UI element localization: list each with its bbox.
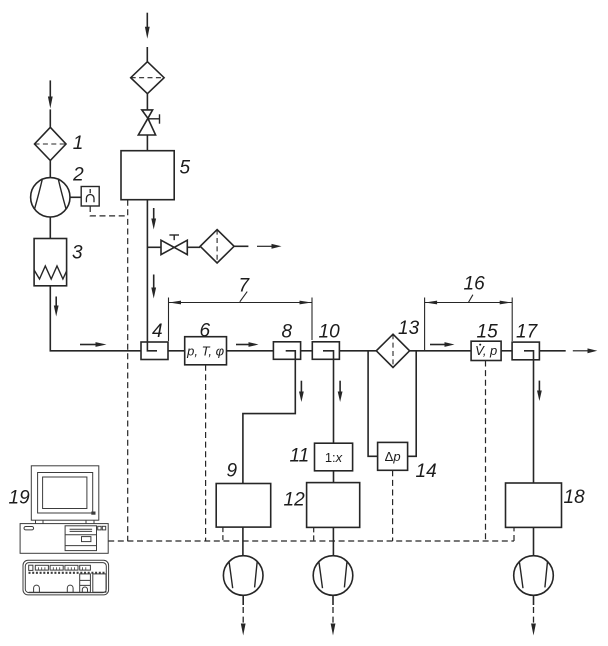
svg-text:16: 16 (464, 273, 486, 294)
arrow head below box5 (151, 219, 156, 230)
blower B2 (31, 178, 70, 217)
svg-text:8: 8 (282, 322, 293, 343)
fan P1 (223, 556, 263, 596)
filter F13 (376, 334, 409, 367)
svg-text:1: 1 (73, 133, 84, 154)
svg-text:11: 11 (290, 446, 310, 467)
exhaust arrow head (272, 244, 282, 249)
filter F5a (131, 62, 164, 94)
key row groups (35, 565, 48, 570)
outlet fan1 (242, 595, 244, 605)
dashed connector box12 (313, 527, 315, 541)
wire box17 down to box18 (533, 360, 535, 483)
wire box15-box17 (501, 350, 512, 352)
box 12 (307, 483, 360, 528)
exhaust wire (234, 245, 248, 247)
keyboard right cluster (80, 574, 91, 592)
keyboard teeth row (29, 572, 105, 574)
riser box8 to box9 (243, 359, 295, 483)
svg-text:19: 19 (9, 488, 31, 509)
filter F1 (35, 127, 67, 160)
box 10 (312, 342, 339, 360)
monitor outer (31, 466, 99, 520)
wire valve to box5 (146, 135, 148, 151)
wire box10-filter13 (339, 350, 376, 352)
heater H3 (34, 239, 67, 286)
dimension 16 (425, 295, 513, 351)
wire box8-box10 (301, 350, 313, 352)
tap left of 13 (368, 351, 378, 457)
arrow on main 6-8 (236, 344, 249, 346)
case slot (24, 527, 34, 530)
box 5 (121, 151, 174, 200)
floppy panel (65, 526, 96, 551)
wire 13 to box15 (410, 350, 472, 352)
wire inlet left (49, 80, 51, 97)
dim16 left head (425, 301, 437, 305)
svg-text:5: 5 (180, 157, 191, 178)
main arrow head before 15 (445, 342, 455, 347)
valve V1 (142, 110, 153, 118)
arrow below box10 (339, 381, 341, 392)
wire (146, 94, 148, 110)
box 4 (141, 342, 168, 360)
wire below box5 down to box4 (146, 200, 148, 342)
svg-text:10: 10 (319, 322, 341, 343)
box 17 (512, 342, 539, 360)
valve V2 (161, 240, 174, 254)
dashed D from box15 (485, 361, 487, 542)
box 9 (216, 484, 271, 528)
box 11 ratio (315, 443, 353, 471)
svg-text:13: 13 (398, 318, 420, 339)
spacebar line and bumps (29, 591, 80, 593)
keyboard numpad (93, 574, 106, 592)
box 8 (273, 342, 300, 360)
svg-text:V, p: V, p (475, 343, 497, 358)
fan P3 (514, 556, 554, 596)
wire box4-box6 (168, 350, 185, 352)
arrow on main before box4 (80, 344, 96, 346)
wire valve to filter F5b (187, 246, 200, 248)
box 6 p,T,phi (185, 337, 227, 365)
dashed bus horizontal (108, 540, 514, 542)
wire box9-fan1 (242, 527, 244, 556)
svg-text:15: 15 (477, 322, 499, 343)
dashed link motor to bus A (90, 206, 128, 216)
screen (43, 477, 87, 509)
dashed C from box14 (392, 470, 394, 541)
arrow below box17 (538, 381, 540, 391)
monitor feet (36, 520, 95, 523)
power led (92, 512, 95, 514)
arrow on main before 15 (430, 344, 445, 346)
outlet fan3 (533, 595, 535, 605)
V dot (479, 344, 481, 346)
second arrow below branch (153, 275, 155, 289)
wire blower-heater (49, 217, 51, 239)
outlet fan2 (332, 595, 334, 605)
arrow below heater (55, 297, 57, 307)
fan P2 (313, 556, 353, 596)
arrow head below box17 (537, 391, 542, 402)
svg-text:1:x: 1:x (325, 450, 343, 465)
arrow below box8 (300, 381, 302, 392)
svg-text:4: 4 (152, 321, 163, 342)
svg-text:p, T, φ: p, T, φ (186, 344, 224, 359)
wire heater to main line (50, 286, 141, 351)
filter F5b (200, 230, 234, 263)
tap right of 13 (408, 351, 417, 457)
main arrow head before box4 (96, 342, 107, 347)
svg-text:7: 7 (239, 275, 251, 296)
arrow head below box8 (299, 392, 304, 403)
monitor bezel (38, 473, 93, 514)
box 15 (471, 341, 501, 360)
dashed B from box6 (205, 365, 207, 541)
fan1 outlet head (241, 624, 246, 636)
svg-text:9: 9 (227, 461, 238, 482)
svg-text:3: 3 (72, 242, 83, 263)
svg-text:17: 17 (516, 322, 539, 343)
wire to motor box (70, 196, 81, 198)
svg-text:6: 6 (200, 321, 211, 342)
second arrow head below branch (151, 288, 156, 299)
wire (49, 161, 51, 178)
heater arrow head (54, 306, 59, 317)
dim16 right head (500, 301, 512, 305)
svg-text:2: 2 (72, 164, 84, 185)
dim7 left head (169, 301, 181, 305)
outlet right head (588, 348, 598, 353)
main arrow head 6-8 (249, 342, 259, 347)
dashed connector box9 (222, 527, 224, 541)
wire box6-box8 (227, 350, 274, 352)
esc key (29, 565, 33, 570)
wire box18-fan3 (533, 527, 535, 555)
fan3 outlet head (531, 624, 536, 636)
box 18 (506, 483, 562, 527)
case (20, 524, 108, 554)
dashed riser bus to box18 (513, 527, 515, 541)
arrow head below box10 (338, 392, 343, 403)
svg-text:12: 12 (284, 490, 306, 511)
wire outlet right (539, 350, 565, 352)
arrow below box5 (153, 208, 155, 219)
box 14 dp (378, 442, 408, 470)
computer 19 (20, 466, 109, 595)
wire box10 down to box11 (333, 359, 335, 443)
dashed bus A vertical (127, 200, 129, 541)
svg-text:14: 14 (416, 461, 437, 482)
wire box12-fan2 (332, 527, 334, 555)
inlet top head (145, 27, 150, 39)
wire inlet top (146, 13, 148, 28)
case squares (98, 526, 101, 530)
svg-text:18: 18 (564, 487, 586, 508)
branch wire to relief valve (147, 246, 161, 248)
dim7 right head (300, 301, 312, 305)
keyboard outer (23, 560, 109, 595)
svg-text:Δp: Δp (385, 449, 401, 464)
fan2 outlet head (331, 624, 336, 636)
wire box11-box12 (333, 471, 335, 483)
inlet left head (48, 97, 53, 109)
motor box (magnet) (81, 187, 99, 207)
dimension 7 (169, 292, 313, 341)
